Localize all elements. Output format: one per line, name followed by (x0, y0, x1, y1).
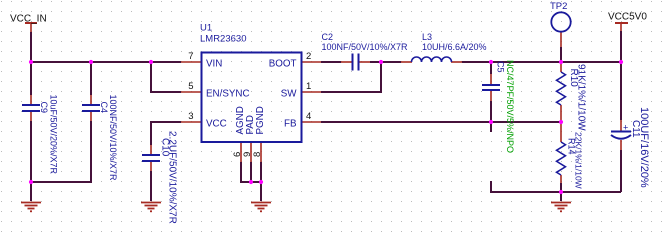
svg-text:4: 4 (306, 111, 311, 122)
svg-text:C9: C9 (39, 102, 49, 114)
svg-text:TP2: TP2 (550, 1, 567, 12)
svg-text:8: 8 (252, 152, 263, 157)
svg-text:SW: SW (281, 88, 298, 99)
svg-text:+: + (623, 123, 628, 133)
svg-text:EN/SYNC: EN/SYNC (206, 88, 250, 99)
svg-text:L3: L3 (422, 32, 432, 42)
svg-text:U1: U1 (200, 23, 212, 34)
svg-text:VCC_IN: VCC_IN (10, 14, 47, 25)
svg-text:3: 3 (188, 111, 193, 122)
svg-text:100NF/50V/10%/X7R: 100NF/50V/10%/X7R (108, 95, 118, 182)
svg-text:2: 2 (306, 51, 311, 62)
svg-text:C5: C5 (496, 61, 506, 73)
svg-text:1: 1 (306, 81, 311, 92)
svg-text:NC/47PF/50V/5%/NPO: NC/47PF/50V/5%/NPO (505, 60, 515, 153)
svg-text:VCC: VCC (206, 118, 227, 129)
svg-text:7: 7 (188, 51, 193, 62)
svg-text:VIN: VIN (206, 58, 222, 69)
svg-text:PGND: PGND (255, 106, 266, 134)
svg-text:2.2UF/50V/10%/X7R: 2.2UF/50V/10%/X7R (167, 131, 178, 224)
svg-text:C4: C4 (99, 102, 109, 114)
svg-text:VCC5V0: VCC5V0 (608, 12, 647, 23)
svg-text:22K/1%/1/10W: 22K/1%/1/10W (574, 132, 584, 189)
svg-text:LMR23630: LMR23630 (200, 33, 246, 44)
svg-text:FB: FB (284, 118, 297, 129)
svg-text:10UH/6.6A/20%: 10UH/6.6A/20% (422, 42, 487, 52)
svg-text:BOOT: BOOT (269, 58, 297, 69)
svg-text:100NF/50V/10%/X7R: 100NF/50V/10%/X7R (322, 42, 409, 52)
svg-text:91K/1%/1/10W: 91K/1%/1/10W (576, 64, 587, 131)
svg-text:10uF/50V/20%/X7R: 10uF/50V/20%/X7R (49, 95, 59, 175)
svg-text:100UF/16V/20%: 100UF/16V/20% (638, 107, 650, 188)
svg-text:C2: C2 (322, 32, 334, 42)
svg-text:5: 5 (188, 81, 193, 92)
